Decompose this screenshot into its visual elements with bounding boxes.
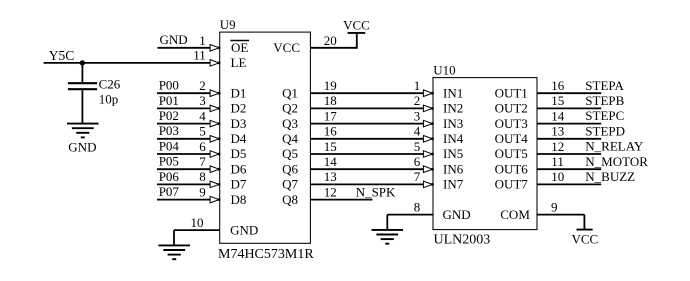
svg-text:P00: P00 <box>159 78 179 93</box>
svg-text:STEPB: STEPB <box>585 93 624 108</box>
U9 pin name Q3 <box>282 116 298 131</box>
svg-text:18: 18 <box>324 93 337 108</box>
svg-text:VCC: VCC <box>343 17 370 32</box>
reference designator U10 <box>433 62 455 77</box>
arrow into U9 pin 9 (D8) <box>210 196 220 203</box>
U9 pin name LE <box>231 55 247 70</box>
reference designator U9 <box>220 17 236 32</box>
wire junction to C26 top <box>81 63 83 82</box>
svg-text:Q7: Q7 <box>282 177 298 192</box>
net label P00 <box>159 78 179 93</box>
svg-text:GND: GND <box>443 207 471 222</box>
svg-text:6: 6 <box>414 154 421 169</box>
U9 pin name D4 <box>231 131 247 146</box>
svg-text:OUT6: OUT6 <box>495 161 529 176</box>
wire Q1 to IN1 <box>310 92 424 94</box>
svg-text:COM: COM <box>500 207 530 222</box>
power symbol VCC (U10 pin 9) <box>577 229 593 231</box>
wire OUT4 to STEPD <box>537 138 601 140</box>
U10 pin name IN4 <box>443 131 464 146</box>
arrow into U9 pin 4 (D3) <box>210 120 220 127</box>
svg-text:9: 9 <box>199 184 206 199</box>
net label N_SPK <box>356 184 396 199</box>
svg-text:16: 16 <box>324 124 338 139</box>
svg-text:11: 11 <box>551 154 564 169</box>
pin number 10 <box>191 215 204 230</box>
node Y5C label <box>49 48 75 63</box>
wire Q3 to IN3 <box>310 123 424 125</box>
net label GND (pin 1) <box>160 32 188 47</box>
arrow into U10 pin 2 (IN2) <box>423 105 433 112</box>
label VCC (top) <box>343 17 370 32</box>
wire U9 pin 10 to ground <box>174 230 220 246</box>
svg-text:12: 12 <box>324 184 337 199</box>
net label P07 <box>159 184 180 199</box>
wire OUT3 to STEPC <box>537 123 601 125</box>
svg-text:8: 8 <box>414 200 421 215</box>
pin number 9 <box>199 184 206 199</box>
wire P05 to U9 pin 7 <box>157 168 211 170</box>
svg-text:P06: P06 <box>159 169 180 184</box>
wire U10 pin 9 (COM) to VCC <box>537 215 584 230</box>
wire C26 bottom to ground <box>81 90 83 123</box>
svg-text:D1: D1 <box>231 85 247 100</box>
U10 pin name IN6 <box>443 161 464 176</box>
pin number 11 <box>551 154 564 169</box>
svg-text:U9: U9 <box>220 17 236 32</box>
latch U9 body <box>220 32 311 243</box>
svg-text:OE: OE <box>231 40 248 55</box>
U10 pin name OUT4 <box>495 131 529 146</box>
pin number 6 <box>199 139 206 154</box>
ground symbol (U10 pin 8) <box>372 230 404 244</box>
arrow into U9 pin 5 (D4) <box>210 136 220 143</box>
power symbol VCC (U9 pin 20) <box>348 32 366 34</box>
svg-text:N_BUZZ: N_BUZZ <box>585 169 635 184</box>
svg-text:10: 10 <box>191 215 204 230</box>
svg-text:IN1: IN1 <box>443 85 463 100</box>
arrow into U10 pin 1 (IN1) <box>423 90 433 97</box>
svg-text:13: 13 <box>551 124 564 139</box>
U9 pin name Q4 <box>282 131 298 146</box>
pin number 4 <box>414 124 421 139</box>
U10 pin name OUT1 <box>495 85 528 100</box>
svg-text:P01: P01 <box>159 93 179 108</box>
svg-text:IN7: IN7 <box>443 177 464 192</box>
net label STEPA <box>585 78 624 93</box>
svg-text:17: 17 <box>324 108 338 123</box>
svg-text:D3: D3 <box>231 116 247 131</box>
pin number 2 <box>414 93 421 108</box>
wire Q4 to IN4 <box>310 138 424 140</box>
U9 pin name D8 <box>231 192 247 207</box>
svg-text:N_SPK: N_SPK <box>356 184 396 199</box>
svg-text:2: 2 <box>414 93 421 108</box>
U9 pin name D6 <box>231 161 247 176</box>
svg-text:D7: D7 <box>231 177 247 192</box>
svg-text:Q1: Q1 <box>282 85 298 100</box>
pin number 20 <box>324 33 337 48</box>
U10 pin name OUT2 <box>495 101 528 116</box>
pin number 16 <box>551 78 565 93</box>
arrow into U9 pin 2 (D1) <box>210 90 220 97</box>
pin number 18 <box>324 93 337 108</box>
net label N_MOTOR <box>585 154 648 169</box>
pin number 5 <box>414 139 421 154</box>
svg-text:LE: LE <box>231 55 247 70</box>
pin number 12 <box>324 184 337 199</box>
label C26 value designator <box>99 77 121 92</box>
U9 part number M74HC573M1R <box>218 247 314 262</box>
svg-text:13: 13 <box>324 169 337 184</box>
pin number 8 <box>414 200 421 215</box>
svg-text:Q3: Q3 <box>282 116 298 131</box>
U9 pin name D1 <box>231 85 247 100</box>
pin number 14 <box>551 108 565 123</box>
label GND (C26 ground) <box>68 139 96 154</box>
ground symbol (U9 pin 10) <box>158 245 190 259</box>
svg-text:IN4: IN4 <box>443 131 464 146</box>
U10 pin name GND <box>443 207 471 222</box>
svg-text:5: 5 <box>199 124 206 139</box>
net label P06 <box>159 169 180 184</box>
label VCC (bottom right) <box>572 231 599 246</box>
svg-text:IN3: IN3 <box>443 116 463 131</box>
svg-text:OUT3: OUT3 <box>495 116 528 131</box>
svg-text:STEPA: STEPA <box>585 78 624 93</box>
svg-text:P02: P02 <box>159 108 179 123</box>
svg-text:D2: D2 <box>231 101 247 116</box>
arrow into U9 pin 3 (D2) <box>210 105 220 112</box>
svg-text:2: 2 <box>199 78 206 93</box>
arrow into U10 pin 7 (IN7) <box>423 181 433 188</box>
wire GND net to U9 pin 1 <box>158 47 211 49</box>
pin number 6 <box>414 154 421 169</box>
svg-text:OUT2: OUT2 <box>495 101 528 116</box>
svg-text:N_RELAY: N_RELAY <box>585 139 644 154</box>
U10 pin name IN5 <box>443 146 463 161</box>
svg-text:11: 11 <box>193 48 206 63</box>
wire P04 to U9 pin 6 <box>157 153 211 155</box>
pin number 1 <box>414 78 421 93</box>
wire Q6 to IN6 <box>310 168 424 170</box>
svg-text:Y5C: Y5C <box>49 48 75 63</box>
wire P07 to U9 pin 9 <box>157 199 211 201</box>
wire Y5C to U9 pin 11 (LE) <box>44 62 211 64</box>
arrow into U9 pin 1 (OE) <box>210 45 220 52</box>
wire Q7 to IN7 <box>310 183 424 185</box>
net label P02 <box>159 108 179 123</box>
svg-text:VCC: VCC <box>572 231 599 246</box>
wire Q8 to N_SPK <box>310 199 372 201</box>
U9 pin name Q6 <box>282 161 298 176</box>
U10 pin name IN3 <box>443 116 463 131</box>
svg-text:D5: D5 <box>231 146 247 161</box>
svg-text:6: 6 <box>199 139 206 154</box>
U9 pin name Q2 <box>282 101 298 116</box>
svg-text:GND: GND <box>230 222 258 237</box>
U10 pin name OUT7 <box>495 177 529 192</box>
wire P02 to U9 pin 4 <box>157 123 211 125</box>
svg-text:Q4: Q4 <box>282 131 298 146</box>
arrow into U9 pin 11 (LE) <box>210 60 220 67</box>
U9 pin name VCC <box>273 40 300 55</box>
U10 pin name OUT3 <box>495 116 528 131</box>
svg-text:Q8: Q8 <box>282 192 298 207</box>
wire P01 to U9 pin 3 <box>157 107 211 109</box>
svg-text:Q6: Q6 <box>282 161 298 176</box>
pin number 12 <box>551 139 564 154</box>
svg-text:5: 5 <box>414 139 421 154</box>
wire Q5 to IN5 <box>310 153 424 155</box>
U9 pin name Q7 <box>282 177 298 192</box>
svg-text:D6: D6 <box>231 161 247 176</box>
net label P03 <box>159 123 179 138</box>
svg-text:1: 1 <box>414 78 421 93</box>
net label N_RELAY <box>585 139 644 154</box>
arrow into U9 pin 6 (D5) <box>210 151 220 158</box>
wire U9 pin 20 to VCC <box>310 33 356 49</box>
net label P04 <box>159 138 180 153</box>
svg-text:14: 14 <box>324 154 338 169</box>
svg-text:C26: C26 <box>99 77 121 92</box>
U9 pin name D5 <box>231 146 247 161</box>
wire P00 to U9 pin 2 <box>157 92 211 94</box>
pin number 3 <box>199 93 206 108</box>
driver U10 body <box>433 78 537 230</box>
U10 part number ULN2003 <box>434 233 491 248</box>
svg-text:STEPD: STEPD <box>585 123 625 138</box>
svg-text:P05: P05 <box>159 154 179 169</box>
svg-text:4: 4 <box>414 124 421 139</box>
svg-text:M74HC573M1R: M74HC573M1R <box>218 247 314 262</box>
U10 pin name IN7 <box>443 177 464 192</box>
svg-text:Q5: Q5 <box>282 146 298 161</box>
pin number 1 <box>199 33 206 48</box>
svg-text:7: 7 <box>199 154 206 169</box>
svg-text:12: 12 <box>551 139 564 154</box>
svg-text:IN6: IN6 <box>443 161 464 176</box>
arrow into U10 pin 5 (IN5) <box>423 151 433 158</box>
arrow into U10 pin 3 (IN3) <box>423 120 433 127</box>
svg-text:P04: P04 <box>159 138 180 153</box>
arrow into U10 pin 6 (IN6) <box>423 166 433 173</box>
svg-text:STEPC: STEPC <box>585 108 624 123</box>
svg-text:3: 3 <box>199 93 206 108</box>
svg-text:IN5: IN5 <box>443 146 463 161</box>
wire P03 to U9 pin 5 <box>157 138 211 140</box>
wire Q2 to IN2 <box>310 107 424 109</box>
pin number 15 <box>551 93 564 108</box>
svg-text:IN2: IN2 <box>443 101 463 116</box>
svg-text:20: 20 <box>324 33 337 48</box>
pin number 13 <box>324 169 337 184</box>
svg-text:GND: GND <box>68 139 96 154</box>
svg-text:P03: P03 <box>159 123 179 138</box>
pin number 11 <box>193 48 206 63</box>
capacitor C26 <box>68 83 97 89</box>
ground symbol (C26) <box>67 124 99 138</box>
svg-text:19: 19 <box>324 78 337 93</box>
net label P05 <box>159 154 179 169</box>
wire OUT7 to N_BUZZ <box>537 183 601 185</box>
svg-text:OUT7: OUT7 <box>495 177 529 192</box>
pin number 4 <box>199 108 206 123</box>
svg-text:1: 1 <box>199 33 206 48</box>
arrow into U10 pin 4 (IN4) <box>423 136 433 143</box>
pin number 17 <box>324 108 338 123</box>
wire OUT6 to N_MOTOR <box>537 168 601 170</box>
svg-text:OUT4: OUT4 <box>495 131 529 146</box>
svg-text:3: 3 <box>414 108 421 123</box>
label C26 value 10p <box>99 91 119 106</box>
wire OUT1 to STEPA <box>537 92 601 94</box>
arrow into U9 pin 7 (D6) <box>210 166 220 173</box>
wire OUT5 to N_RELAY <box>537 153 601 155</box>
pin number 8 <box>199 169 206 184</box>
pin number 15 <box>324 139 337 154</box>
svg-text:4: 4 <box>199 108 206 123</box>
pin number 16 <box>324 124 338 139</box>
junction on Y5C net <box>80 60 85 65</box>
svg-text:15: 15 <box>324 139 337 154</box>
svg-text:OUT1: OUT1 <box>495 85 528 100</box>
svg-text:16: 16 <box>551 78 565 93</box>
pin number 7 <box>414 169 421 184</box>
pin number 13 <box>551 124 564 139</box>
arrow into U9 pin 8 (D7) <box>210 181 220 188</box>
svg-text:D4: D4 <box>231 131 247 146</box>
pin number 3 <box>414 108 421 123</box>
pin number 9 <box>551 200 558 215</box>
pin number 2 <box>199 78 206 93</box>
pin number 5 <box>199 124 206 139</box>
svg-text:OUT5: OUT5 <box>495 146 528 161</box>
U9 pin name Q8 <box>282 192 298 207</box>
U10 pin name OUT6 <box>495 161 529 176</box>
net label STEPD <box>585 123 625 138</box>
pin number 14 <box>324 154 338 169</box>
pin number 19 <box>324 78 337 93</box>
svg-text:7: 7 <box>414 169 421 184</box>
svg-text:N_MOTOR: N_MOTOR <box>585 154 648 169</box>
net label P01 <box>159 93 179 108</box>
svg-text:14: 14 <box>551 108 565 123</box>
svg-text:10p: 10p <box>99 91 119 106</box>
net label N_BUZZ <box>585 169 635 184</box>
svg-text:D8: D8 <box>231 192 247 207</box>
U9 pin name D2 <box>231 101 247 116</box>
svg-text:VCC: VCC <box>273 40 300 55</box>
U10 pin name IN2 <box>443 101 463 116</box>
svg-text:10: 10 <box>551 169 564 184</box>
svg-text:8: 8 <box>199 169 206 184</box>
pin number 7 <box>199 154 206 169</box>
U9 pin name Q1 <box>282 85 298 100</box>
svg-text:9: 9 <box>551 200 558 215</box>
net label STEPC <box>585 108 624 123</box>
wire P06 to U9 pin 8 <box>157 183 211 185</box>
U10 pin name IN1 <box>443 85 463 100</box>
pin number 10 <box>551 169 564 184</box>
U9 pin name Q5 <box>282 146 298 161</box>
net label STEPB <box>585 93 624 108</box>
svg-text:GND: GND <box>160 32 188 47</box>
U10 pin name OUT5 <box>495 146 528 161</box>
svg-text:Q2: Q2 <box>282 101 298 116</box>
svg-text:ULN2003: ULN2003 <box>434 233 491 248</box>
U9 pin name D7 <box>231 177 247 192</box>
svg-text:P07: P07 <box>159 184 180 199</box>
U9 pin name GND <box>230 222 258 237</box>
svg-text:15: 15 <box>551 93 564 108</box>
svg-text:U10: U10 <box>433 62 455 77</box>
U9 pin name OE (active low, overlined) <box>230 40 249 55</box>
wire U10 pin 8 to ground <box>387 215 433 231</box>
wire OUT2 to STEPB <box>537 107 601 109</box>
U9 pin name D3 <box>231 116 247 131</box>
U10 pin name COM <box>500 207 530 222</box>
